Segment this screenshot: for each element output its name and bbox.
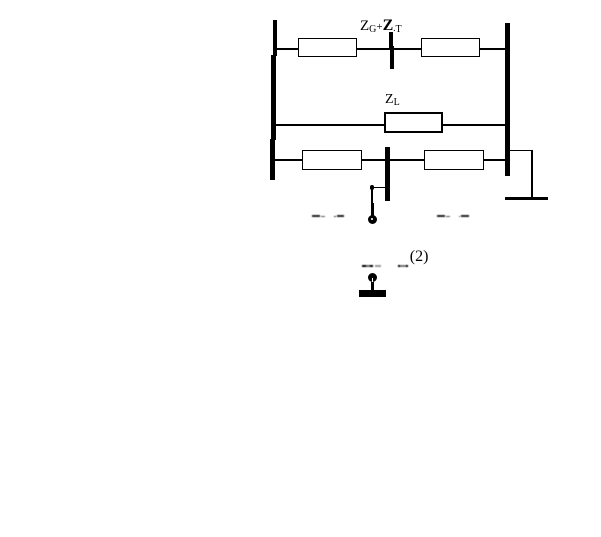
fault symbol circle (bottom) xyxy=(368,273,378,283)
wire: fault branch vertical drop (thicker lower part) xyxy=(371,203,374,216)
node: middle bus tick between ZG and ZT (upper segment) xyxy=(389,32,393,48)
wire: middle row horizontal xyxy=(275,124,505,126)
clipped equation fragment marks xyxy=(362,265,373,267)
white slit in fault symbol xyxy=(372,278,374,282)
node: bottom middle bus tick xyxy=(385,147,390,201)
white center of fault point circle xyxy=(371,218,373,220)
resistor box: transformer branch right (ZT) xyxy=(421,38,481,57)
clipped label fragment: right (tops of Zs1+Zs2 text) xyxy=(437,215,445,217)
node: right bus bar xyxy=(505,23,510,176)
value label: ZL xyxy=(385,93,400,108)
wire: fault branch vertical drop xyxy=(371,187,373,215)
fault symbol stem xyxy=(371,282,374,291)
resistor box: generator branch left (ZG) xyxy=(298,38,357,57)
wire: right bus to ground horizontal xyxy=(509,150,533,151)
wire: right bus to ground vertical xyxy=(531,150,532,197)
fault point circle (upper) xyxy=(368,215,377,224)
junction dot on fault branch xyxy=(370,185,375,190)
node: left bus bar (segment 1) xyxy=(273,20,277,56)
node: middle bus tick between ZG and ZT (lower segment) xyxy=(390,46,394,69)
ground bar (right) xyxy=(505,197,549,201)
clipped label fragment: left (tops of Zs1+Zs2 text) xyxy=(312,215,320,217)
node: left bus bar (segment 3) xyxy=(270,139,275,180)
resistor box: bottom right branch xyxy=(424,150,485,170)
value label: ZG+ZT xyxy=(360,18,402,35)
wire: bottom row horizontal xyxy=(274,159,505,161)
resistor box: bottom left branch xyxy=(302,150,362,170)
ground bar under fault symbol xyxy=(359,290,386,297)
wire: fault branch horizontal stub xyxy=(371,187,385,188)
superscript label (2): fault type xyxy=(410,249,429,265)
resistor box: line impedance ZL xyxy=(384,112,443,133)
node: left bus bar (segment 2) xyxy=(271,55,276,140)
wire: top row horizontal xyxy=(276,48,505,50)
